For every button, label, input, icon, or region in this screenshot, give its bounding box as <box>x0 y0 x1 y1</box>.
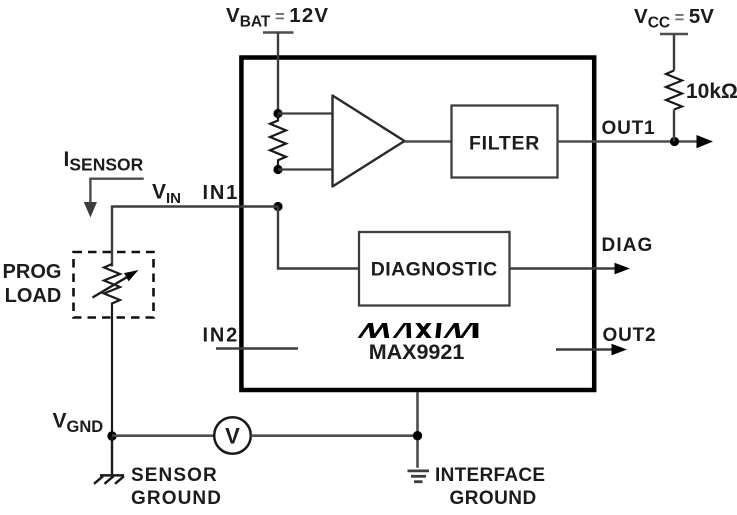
ground earth interface symbol <box>408 471 430 482</box>
svg-text:INTERFACE: INTERFACE <box>435 465 545 486</box>
node VGND junction <box>107 431 116 440</box>
VBAT supply terminal bar <box>263 31 294 34</box>
wire FILTER to OUT1 <box>558 140 701 143</box>
VCC supply terminal bar <box>660 33 688 36</box>
variable resistor programmable load <box>104 264 120 436</box>
wire resistor top to comparator input <box>278 112 333 114</box>
node OUT1 junction <box>670 137 679 146</box>
voltmeter V <box>214 417 251 454</box>
svg-text:IN1: IN1 <box>203 182 240 204</box>
svg-text:GROUND: GROUND <box>450 488 537 509</box>
wire comparator output to FILTER <box>405 140 452 142</box>
FILTER block <box>452 106 558 178</box>
wire VBAT vertical into IC <box>277 33 279 116</box>
svg-text:LOAD: LOAD <box>5 285 62 307</box>
wire VCC to resistor <box>673 34 675 71</box>
svg-text:10kΩ: 10kΩ <box>686 80 737 103</box>
arrow ISENSOR bent <box>90 179 143 203</box>
DIAGNOSTIC block <box>359 232 510 306</box>
arrowhead OUT1 <box>697 135 714 148</box>
wire IN2 stub <box>216 347 298 349</box>
node IN1 junction <box>273 202 282 211</box>
svg-text:VGND: VGND <box>53 410 104 437</box>
svg-text:MAX9921: MAX9921 <box>369 340 465 364</box>
svg-text:DIAGNOSTIC: DIAGNOSTIC <box>371 259 498 281</box>
IC box MAX9921 outline <box>241 58 594 391</box>
svg-text:OUT2: OUT2 <box>603 325 657 346</box>
svg-text:GROUND: GROUND <box>131 488 222 509</box>
wire resistor bottom to comparator input <box>278 168 333 170</box>
wire VGND down to sensor ground <box>111 436 113 475</box>
svg-text:ISENSOR: ISENSOR <box>64 148 144 175</box>
svg-text:FILTER: FILTER <box>469 133 540 155</box>
svg-text:OUT1: OUT1 <box>602 118 656 139</box>
svg-text:V: V <box>225 424 240 449</box>
wire IN1 junction down and to DIAGNOSTIC <box>278 207 359 269</box>
ground chassis sensor symbol <box>94 475 124 483</box>
svg-text:SENSOR: SENSOR <box>131 465 218 486</box>
arrowhead DIAG <box>615 263 631 275</box>
node junction bottom of resistor <box>273 165 282 174</box>
svg-text:VCC = 5V: VCC = 5V <box>634 5 714 32</box>
node junction top of resistor <box>273 109 282 118</box>
wire VGND to voltmeter <box>112 434 215 437</box>
node interface ground junction <box>413 431 422 440</box>
MAXIM logo <box>358 323 479 338</box>
svg-text:IN2: IN2 <box>203 325 240 347</box>
svg-text:PROG: PROG <box>3 261 62 283</box>
resistor comparator hysteresis <box>270 114 286 170</box>
svg-text:DIAG: DIAG <box>602 235 654 256</box>
resistor R 10k <box>666 71 682 110</box>
PROG LOAD dashed box <box>74 252 154 318</box>
wire IC bottom to interface ground <box>416 392 419 468</box>
wire voltmeter to interface ground junction <box>251 434 418 437</box>
arrowhead OUT2 <box>612 344 628 356</box>
wire IN1 horizontal <box>112 207 278 267</box>
wire DIAGNOSTIC to DIAG output <box>510 267 619 269</box>
svg-text:VIN: VIN <box>152 181 181 208</box>
wire 10k resistor to OUT1 node <box>673 110 675 142</box>
svg-text:VBAT = 12V: VBAT = 12V <box>226 4 329 31</box>
wire OUT2 stub <box>556 348 615 350</box>
op-amp comparator triangle <box>333 96 405 187</box>
